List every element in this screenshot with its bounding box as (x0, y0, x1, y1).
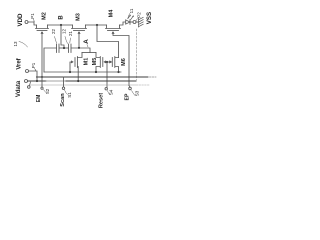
label 11 (129, 8, 134, 13)
transistor M2 (36, 25, 49, 29)
wire VDD to M2 (28, 22, 37, 25)
svg-text:S2: S2 (45, 88, 50, 94)
junction M5 bottom (95, 71, 97, 73)
label P1 (30, 13, 35, 19)
wire top junction to M6 drain (97, 25, 119, 58)
leader S1 (65, 90, 68, 95)
label 12 (61, 29, 66, 35)
svg-text:EM: EM (36, 95, 42, 103)
dashed column right (136, 29, 138, 80)
svg-text:P2: P2 (136, 12, 141, 18)
wire node B down to cap junction (61, 25, 64, 48)
leader 21 (69, 38, 72, 43)
svg-text:Vref: Vref (17, 57, 23, 69)
OLED diode D1 (126, 20, 130, 24)
bus node wire (44, 71, 121, 73)
VSS chassis hatch (138, 18, 140, 27)
capacitor C1 (21) (69, 44, 72, 53)
leader S4 (107, 91, 109, 95)
Scan terminal stub (63, 77, 65, 87)
label S2 (45, 88, 50, 94)
EM terminal circle (41, 87, 43, 89)
svg-text:M5: M5 (92, 58, 98, 66)
Reset terminal circle (105, 88, 107, 90)
wire M4 to OLED (120, 22, 126, 25)
terminal P2 circle (133, 21, 136, 24)
svg-text:VSS: VSS (146, 12, 153, 24)
label P2 (136, 12, 141, 18)
label Vdata (16, 80, 22, 97)
leader 13 (19, 42, 28, 48)
junction M1 bottom / Vdata (77, 80, 79, 82)
capacitor C2 (22) (57, 44, 60, 53)
label Vref (17, 57, 23, 69)
cap wire middle (59, 47, 69, 49)
EP terminal circle (129, 87, 132, 90)
junction between caps (63, 47, 65, 49)
Vdata line (28, 80, 47, 82)
junction M5 gate / reset column (106, 61, 108, 63)
leader P1 Vref (34, 68, 35, 70)
wire M3 to M4 (86, 24, 107, 26)
svg-text:M4: M4 (109, 9, 115, 18)
transistor M6 (115, 57, 119, 73)
terminal Vref circle (26, 70, 29, 73)
label S3 (134, 90, 139, 96)
svg-text:13: 13 (13, 41, 18, 47)
label Reset (99, 93, 105, 108)
leader 22 (55, 37, 57, 44)
svg-text:VDD: VDD (17, 13, 24, 27)
junction Vref/Vdata (36, 80, 38, 82)
transistor M5 (96, 53, 100, 73)
svg-text:Vdata: Vdata (16, 80, 22, 97)
svg-text:P1: P1 (31, 62, 36, 68)
wire M3 gate to node A (78, 34, 80, 48)
svg-text:M3: M3 (76, 13, 82, 21)
leader 12 (65, 37, 68, 44)
svg-text:Reset: Reset (99, 93, 105, 108)
svg-text:Scan: Scan (60, 93, 66, 107)
label S1 (67, 92, 72, 98)
transistor M4 (106, 25, 121, 29)
svg-text:M6: M6 (121, 58, 127, 66)
wire Vref to Vdata line (29, 71, 38, 81)
label S4 (108, 89, 113, 95)
transistor M3 (72, 25, 87, 29)
label 21 (68, 31, 73, 37)
junction M3 gate / node A (78, 47, 80, 49)
svg-text:22: 22 (51, 29, 56, 35)
wire M4 gate to EP column (113, 34, 129, 86)
svg-text:11: 11 (129, 8, 134, 13)
junction on top rail (96, 24, 98, 26)
leader P2 (136, 19, 138, 21)
node A to M1/M5 source wire (82, 52, 96, 54)
cap wire left (44, 48, 57, 72)
label 22 (51, 29, 56, 35)
EP stub from column (129, 86, 130, 88)
EM terminal stub (41, 77, 43, 87)
junction M2 gate / EM bus (41, 76, 43, 78)
terminal P1 (VDD) circle (25, 21, 28, 24)
M2 gate wire down to EM (41, 34, 43, 78)
label 13 (13, 41, 18, 47)
svg-text:21: 21 (68, 31, 73, 37)
svg-text:12: 12 (61, 29, 66, 35)
node A wire (71, 48, 90, 53)
label VSS (146, 12, 153, 24)
node VDD label (17, 13, 24, 27)
label Scan (60, 93, 66, 107)
svg-text:M1: M1 (84, 58, 90, 66)
wire M2 to node B (48, 24, 73, 26)
junction M6 bottom (117, 71, 119, 73)
LED arrows (128, 15, 131, 18)
label A (83, 39, 90, 44)
wire to VSS hatch (136, 21, 139, 23)
wire reset column (106, 62, 108, 88)
label EP (125, 93, 131, 100)
svg-text:S1: S1 (67, 92, 72, 98)
transistor M1 (77, 53, 82, 82)
leader S2 (44, 90, 47, 93)
label EM (36, 95, 42, 103)
EM bus (37, 76, 149, 78)
leader S3 (132, 91, 136, 96)
svg-text:B: B (59, 15, 65, 20)
svg-text:EP: EP (125, 93, 131, 100)
leader A (87, 45, 88, 48)
junction M1 gate / bus (69, 71, 71, 73)
terminal Vdata circle (25, 80, 28, 83)
svg-text:A: A (83, 39, 90, 44)
Scan terminal circle (62, 87, 64, 89)
Vdata lower terminal circle (29, 82, 30, 86)
node B (60, 24, 62, 26)
wire OLED to VSS terminal (130, 21, 133, 23)
svg-text:M2: M2 (42, 12, 48, 20)
leader 11 (128, 14, 130, 18)
lower faint line (30, 84, 138, 86)
label P1 (Vref) (31, 62, 36, 68)
leader P1 VDD (32, 19, 35, 21)
svg-text:P1: P1 (30, 13, 35, 19)
